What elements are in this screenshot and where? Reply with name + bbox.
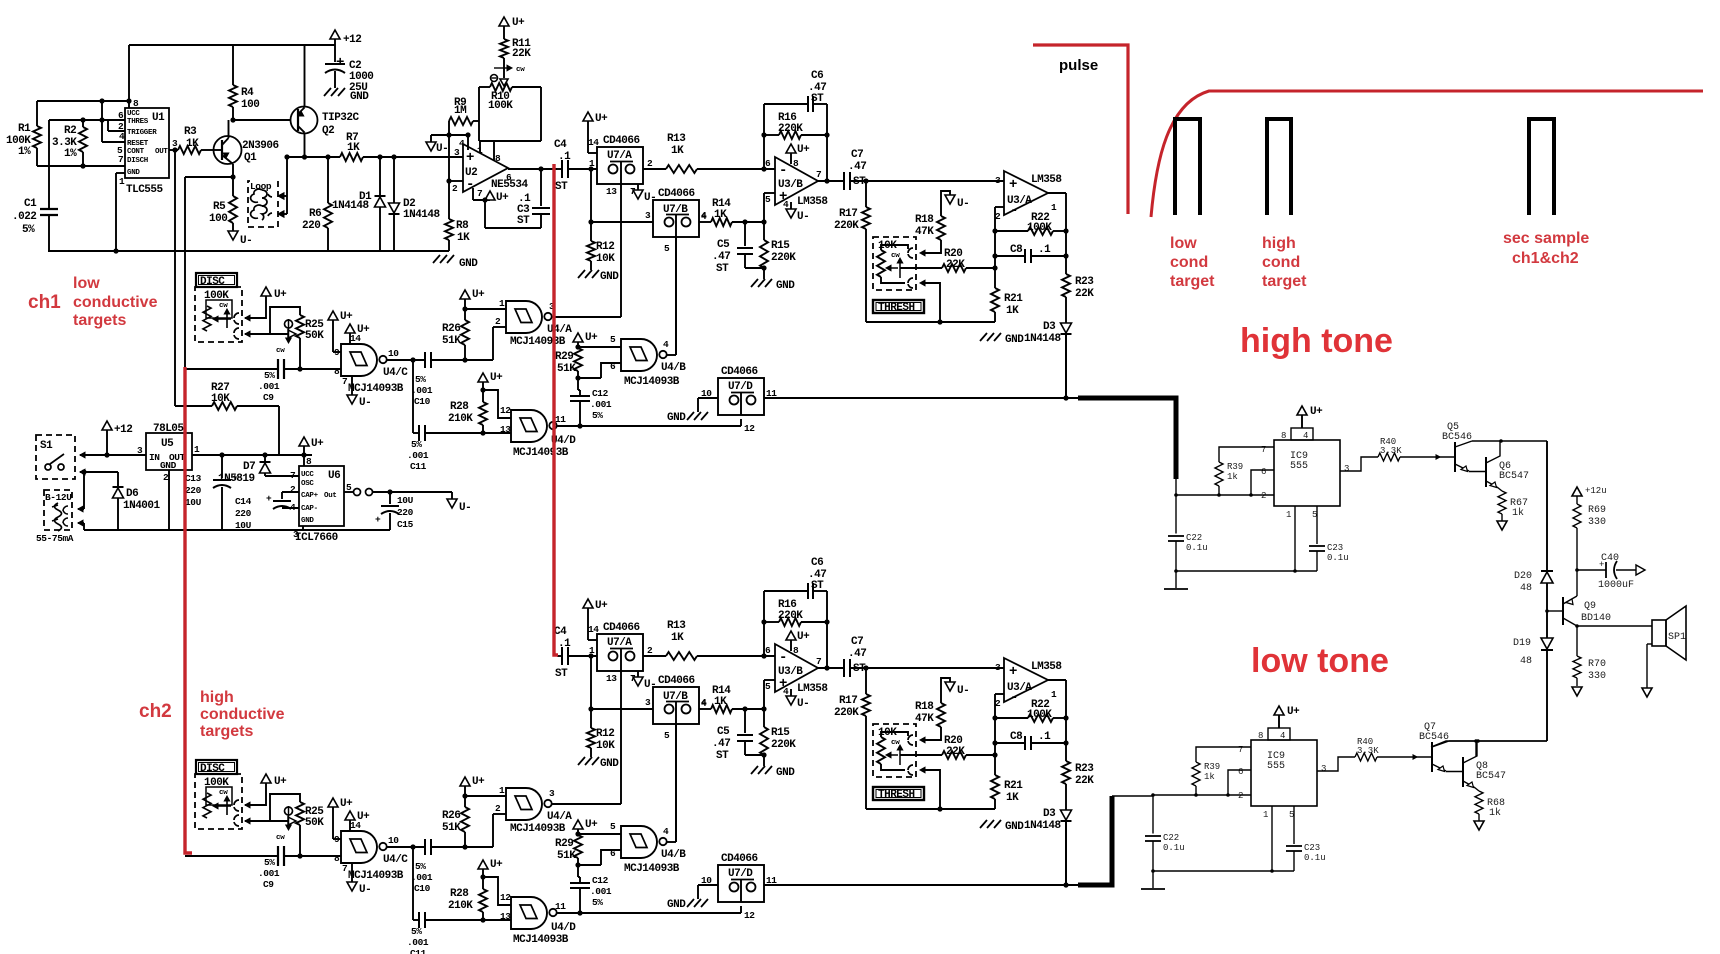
resistor R5 [232, 177, 234, 196]
svg-text:D20: D20 [1514, 571, 1532, 582]
analog switch U7/D CD4066 [718, 378, 764, 415]
resistor R26 51K [464, 345, 466, 360]
nand gate U4/C MCJ14093B [341, 344, 377, 376]
analog switch U7/B CD4066 [653, 687, 699, 724]
svg-text:1%: 1% [64, 148, 77, 160]
svg-text:220: 220 [397, 507, 414, 518]
nand gate U4/B MCJ14093B [621, 339, 657, 371]
svg-text:6: 6 [610, 848, 616, 859]
wire S1 lower to D6 [80, 469, 85, 475]
svg-text:U7/D: U7/D [728, 381, 753, 393]
resistor R70 330 [1576, 626, 1578, 656]
wire THRESH bottom terminal [922, 770, 940, 809]
svg-text:U-: U- [797, 698, 809, 710]
svg-text:low tone: low tone [1251, 642, 1389, 680]
svg-text:conductive: conductive [73, 294, 158, 311]
svg-text:C11: C11 [410, 461, 427, 472]
wire R25 to gate input [299, 338, 301, 369]
svg-text:R18: R18 [915, 214, 934, 226]
ground bar [1175, 571, 1177, 588]
svg-text:sec sample: sec sample [1503, 230, 1589, 247]
svg-text:1: 1 [1051, 689, 1057, 700]
svg-text:+: + [336, 55, 344, 71]
svg-text:C5: C5 [717, 726, 730, 738]
wire ch1 thick output to high tone 555 [1078, 398, 1176, 479]
wire THRESH wiper to R20 [900, 754, 942, 756]
svg-text:48: 48 [1520, 583, 1532, 594]
svg-text:5: 5 [610, 821, 616, 832]
capacitor C23 0.1u [1293, 806, 1295, 844]
svg-text:.001: .001 [407, 937, 429, 948]
pulse waveform low cond target [1175, 119, 1200, 215]
analog switch U7/D CD4066 [718, 865, 764, 902]
svg-text:7: 7 [816, 169, 822, 180]
wire bus to low tone block [1546, 650, 1548, 741]
svg-text:R12: R12 [596, 241, 614, 253]
wire U4/A output to U7/A control [551, 316, 621, 318]
minus circle [491, 75, 498, 82]
potentiometer DISC 100K [195, 287, 242, 342]
svg-text:48: 48 [1520, 656, 1532, 667]
svg-text:3: 3 [172, 138, 178, 149]
svg-text:R18: R18 [915, 701, 934, 713]
svg-text:5: 5 [765, 194, 771, 205]
svg-text:targets: targets [200, 723, 253, 740]
svg-text:GND: GND [667, 412, 686, 424]
svg-text:MCJ14093B: MCJ14093B [513, 447, 569, 459]
wire 555 pin1 ground rail [1294, 506, 1296, 571]
wire U3/A pin2 [995, 693, 1004, 695]
svg-text:U+: U+ [340, 798, 353, 810]
wire collector node [1449, 740, 1547, 742]
V+ arrows at U4/C [328, 311, 338, 320]
svg-text:51K: 51K [442, 335, 461, 347]
V- arrow at C15 [451, 492, 453, 500]
svg-text:U+: U+ [1287, 706, 1300, 718]
wire DISC lower to R25 wiper [245, 818, 250, 824]
svg-text:1N4148: 1N4148 [1024, 820, 1062, 832]
ground arrow below R67 [1474, 821, 1484, 830]
svg-text:5%: 5% [264, 857, 275, 868]
svg-text:330: 330 [1588, 671, 1606, 682]
resistor R23 22K [1062, 761, 1070, 784]
svg-text:U3/A: U3/A [1007, 195, 1032, 207]
svg-text:5%: 5% [415, 861, 426, 872]
svg-text:.001: .001 [590, 399, 612, 410]
svg-text:U4/B: U4/B [661, 362, 686, 374]
svg-text:14: 14 [588, 624, 599, 635]
svg-text:LM358: LM358 [797, 683, 828, 695]
potentiometer R10 100K [479, 86, 490, 88]
red ch2 trace line [554, 164, 558, 655]
svg-text:ST: ST [811, 93, 824, 105]
V- at U3/B pin4 [790, 689, 792, 697]
resistor R14 [711, 705, 732, 713]
V+ above 555 [1274, 706, 1284, 715]
svg-text:6: 6 [765, 158, 771, 169]
svg-text:C1: C1 [24, 198, 37, 210]
svg-text:2: 2 [647, 645, 653, 656]
svg-text:5%: 5% [264, 370, 275, 381]
svg-text:CD4066: CD4066 [721, 366, 758, 378]
svg-text:12: 12 [744, 910, 755, 921]
diode D20 48 [1541, 570, 1553, 572]
svg-text:CAP+: CAP+ [301, 492, 319, 500]
wire U3/A output [1048, 679, 1066, 681]
svg-text:1N4148: 1N4148 [403, 209, 441, 221]
svg-text:1N5819: 1N5819 [218, 473, 255, 485]
svg-text:ST: ST [716, 750, 729, 762]
svg-text:100K: 100K [488, 100, 513, 112]
resistor R39 1k [1215, 462, 1223, 486]
opamp U3/A LM358 [1004, 658, 1048, 702]
svg-text:5: 5 [610, 334, 616, 345]
wire C10 to U4/A pin2 [492, 814, 494, 847]
resistor R18 47K [937, 703, 945, 727]
svg-text:6: 6 [610, 361, 616, 372]
svg-text:11: 11 [555, 414, 566, 425]
svg-text:220: 220 [185, 485, 202, 496]
svg-text:1M: 1M [454, 105, 467, 117]
svg-text:5%: 5% [411, 439, 422, 450]
svg-text:MCJ14093B: MCJ14093B [348, 870, 404, 882]
svg-text:10K: 10K [211, 393, 230, 405]
wire ch2 thick output to low tone 555 [1078, 796, 1112, 885]
svg-text:R28: R28 [450, 401, 469, 413]
capacitor C7 [843, 172, 845, 190]
svg-text:cw: cw [276, 347, 285, 355]
svg-text:47K: 47K [915, 226, 934, 238]
svg-text:R6: R6 [309, 208, 321, 220]
svg-text:TRIGGER: TRIGGER [127, 129, 157, 137]
capacitor C10 [424, 352, 426, 368]
ground rail bottom [48, 250, 449, 252]
svg-text:U7/D: U7/D [728, 868, 753, 880]
svg-text:U6: U6 [328, 470, 340, 482]
svg-text:R4: R4 [241, 87, 254, 99]
svg-text:22K: 22K [1075, 775, 1094, 787]
svg-text:220K: 220K [778, 123, 803, 135]
svg-text:C23: C23 [1304, 843, 1320, 853]
svg-text:ST: ST [517, 215, 530, 227]
svg-text:6: 6 [506, 172, 512, 183]
svg-text:1K: 1K [671, 145, 684, 157]
svg-text:C6: C6 [811, 557, 823, 569]
wire 555 pin1 ground rail [1271, 806, 1273, 871]
svg-text:3: 3 [645, 697, 651, 708]
switch S1 [36, 435, 75, 479]
svg-text:high tone: high tone [1240, 322, 1393, 360]
diode D3 1N4148 [1061, 810, 1072, 820]
wire R18 to THRESH top terminal [922, 240, 941, 253]
svg-text:U4/B: U4/B [661, 849, 686, 861]
capacitor C1 [48, 120, 50, 208]
wire Q1 emitter to ch1 red node [232, 164, 234, 177]
ground below R12 [578, 270, 585, 278]
svg-text:78L05: 78L05 [153, 423, 184, 435]
wire R7 to U2 +input [363, 156, 463, 158]
svg-text:10: 10 [388, 835, 399, 846]
wire U3/B feedback right [826, 591, 828, 668]
svg-text:.47: .47 [712, 738, 730, 750]
svg-text:C14: C14 [235, 496, 252, 507]
svg-text:C7: C7 [851, 636, 863, 648]
power rail +12 wire [129, 44, 335, 46]
svg-text:R23: R23 [1075, 763, 1094, 775]
transistor Q1 2N3906 [214, 136, 242, 164]
V+ at U7/A pin14 [583, 112, 593, 121]
resistor R26 51K [464, 832, 466, 847]
V+ above R11 [499, 17, 509, 26]
svg-text:5%: 5% [592, 897, 603, 908]
svg-text:ch1&ch2: ch1&ch2 [1512, 250, 1579, 267]
svg-text:conductive: conductive [200, 706, 285, 723]
transistor Q BC546 [1454, 442, 1456, 472]
svg-text:CD4066: CD4066 [658, 675, 695, 687]
wire U1 pin1 ground [116, 172, 125, 174]
wire U7/B input [591, 221, 653, 223]
svg-text:CD4066: CD4066 [603, 622, 640, 634]
wire U7/B control pin5 [675, 215, 677, 356]
svg-text:UCC: UCC [301, 471, 314, 479]
resistor R23 22K [1062, 274, 1070, 297]
wire C11 branch [412, 360, 414, 433]
nand gate U4/D MCJ14093B [511, 410, 547, 442]
V- below U4/C [351, 376, 353, 396]
resistor R22 100K feedback [995, 230, 1028, 232]
wire 555 pin7 [1219, 447, 1274, 462]
svg-text:DISC: DISC [200, 763, 225, 775]
svg-text:GND: GND [127, 169, 140, 177]
svg-text:4: 4 [459, 138, 465, 149]
wire U2 pin8 stub [493, 141, 495, 161]
svg-text:8: 8 [306, 456, 312, 467]
IC U6 ICL7660 [299, 466, 344, 526]
svg-text:target: target [1262, 273, 1307, 290]
wire U7/D pin10 to ground [698, 397, 718, 399]
V+ above R26 [464, 298, 466, 320]
red decay curve [1151, 91, 1703, 217]
svg-text:.47: .47 [848, 648, 866, 660]
svg-text:C9: C9 [263, 879, 274, 890]
svg-text:1k: 1k [1204, 772, 1215, 782]
svg-text:R39: R39 [1204, 762, 1220, 772]
V- above R18 [945, 195, 955, 204]
svg-text:C4: C4 [554, 139, 567, 151]
analog switch U7/A CD4066 [597, 147, 643, 184]
wire U3/B pin5 R14 [764, 679, 775, 681]
svg-text:2N3906: 2N3906 [242, 140, 279, 152]
IC 555 timer IC9 [1274, 440, 1340, 506]
svg-text:1K: 1K [457, 232, 470, 244]
wire 555 pin6 pin2 [1228, 770, 1251, 795]
V- above R18 [945, 682, 955, 691]
svg-text:ch1: ch1 [28, 292, 61, 313]
wire R27 to rail [278, 406, 280, 455]
svg-text:12: 12 [500, 405, 511, 416]
svg-text:51K: 51K [557, 850, 576, 862]
capacitor C23 0.1u [1316, 506, 1318, 544]
svg-text:R70: R70 [1588, 659, 1606, 670]
svg-text:220K: 220K [771, 739, 796, 751]
svg-text:3: 3 [137, 445, 143, 456]
ground arrow below R70 [1572, 687, 1582, 696]
svg-text:C11: C11 [410, 948, 427, 954]
svg-text:7: 7 [290, 470, 296, 481]
svg-text:3.3K: 3.3K [1380, 446, 1402, 456]
svg-text:220K: 220K [771, 252, 796, 264]
capacitor C3 [508, 168, 557, 170]
svg-text:-: - [779, 650, 787, 666]
cw arrow at R11 [494, 67, 510, 69]
wire U4/B pin5 [578, 346, 621, 348]
svg-text:GND: GND [1005, 821, 1024, 833]
wire R28 to U4/D pin12 [483, 877, 511, 905]
ground symbol right [433, 255, 440, 263]
resistor R3 [172, 147, 177, 152]
svg-text:8: 8 [793, 158, 799, 169]
capacitor C40 1000uF [1577, 569, 1606, 571]
svg-text:D6: D6 [126, 488, 138, 500]
svg-text:ST: ST [811, 580, 824, 592]
svg-text:5%: 5% [411, 926, 422, 937]
resistor R6 [327, 157, 329, 203]
analog switch U7/A CD4066 [597, 634, 643, 671]
svg-text:R17: R17 [839, 695, 857, 707]
svg-text:4: 4 [1280, 731, 1285, 741]
diode D7 1N5819 [264, 455, 266, 462]
svg-text:ST: ST [716, 263, 729, 275]
svg-text:C8: C8 [1010, 731, 1023, 743]
svg-text:S1: S1 [40, 440, 53, 452]
V+ above 555 [1297, 406, 1307, 415]
svg-text:6: 6 [118, 110, 124, 121]
svg-text:4: 4 [1303, 431, 1308, 441]
svg-text:U+: U+ [340, 311, 353, 323]
resistor R1 [33, 126, 41, 148]
svg-text:13: 13 [606, 673, 617, 684]
wire Q9 emitter to R69 [1576, 570, 1578, 596]
svg-text:D3: D3 [1043, 321, 1056, 333]
regulator U5 78L05 [146, 433, 192, 470]
svg-text:3: 3 [549, 788, 555, 799]
svg-text:100K: 100K [1027, 222, 1052, 234]
svg-text:U-: U- [644, 679, 656, 691]
svg-text:U-: U- [459, 502, 471, 514]
wire U4/C output [386, 359, 425, 361]
svg-text:BD140: BD140 [1581, 613, 1611, 624]
diode D3 1N4148 [1061, 323, 1072, 333]
V- at U3/B pin4 [790, 202, 792, 210]
svg-text:C6: C6 [811, 70, 823, 82]
svg-text:55-75mA: 55-75mA [36, 533, 74, 544]
svg-text:4: 4 [663, 339, 669, 350]
svg-text:22K: 22K [1075, 288, 1094, 300]
svg-text:DISCH: DISCH [127, 157, 148, 165]
svg-text:5%: 5% [592, 410, 603, 421]
svg-text:4: 4 [119, 131, 125, 142]
svg-text:THRES: THRES [127, 118, 149, 126]
svg-text:8: 8 [1258, 731, 1263, 741]
svg-text:5: 5 [765, 681, 771, 692]
resistor R15 [760, 240, 768, 268]
pulse waveform sec sample [1529, 119, 1554, 215]
svg-text:R13: R13 [667, 620, 686, 632]
svg-text:1k: 1k [1227, 472, 1238, 482]
wire DISC lower to R25 wiper [245, 331, 250, 337]
wire U3/B feedback left [763, 104, 765, 169]
svg-text:47K: 47K [915, 713, 934, 725]
svg-text:50K: 50K [305, 817, 324, 829]
analog switch U7/B CD4066 [653, 200, 699, 237]
wire THRES line [49, 119, 125, 121]
svg-text:IN: IN [149, 452, 160, 463]
capacitor C22 0.1u [1175, 495, 1177, 534]
svg-text:8: 8 [1281, 431, 1286, 441]
transistor Q2 TIP32C [291, 107, 318, 134]
svg-text:4: 4 [663, 826, 669, 837]
resistor R40 3.3K [1355, 753, 1377, 761]
nand gate U4/B MCJ14093B [621, 826, 657, 858]
wire U5 output rail [192, 454, 312, 456]
svg-text:R12: R12 [596, 728, 614, 740]
svg-text:8: 8 [334, 366, 340, 377]
svg-text:ch2: ch2 [139, 701, 172, 722]
svg-text:13: 13 [500, 911, 511, 922]
ground below R15 [751, 766, 758, 774]
svg-text:.001: .001 [411, 872, 433, 883]
svg-text:U7/B: U7/B [663, 691, 688, 703]
svg-text:330: 330 [1588, 517, 1606, 528]
svg-text:BC546: BC546 [1442, 432, 1472, 443]
svg-text:BC547: BC547 [1476, 771, 1506, 782]
wire U3/B feedback right [826, 104, 828, 181]
V- below R5 [228, 231, 238, 240]
IC U1 TLC555 [125, 108, 169, 178]
svg-text:U7/A: U7/A [607, 637, 632, 649]
wire RESET line [102, 141, 125, 143]
svg-text:C8: C8 [1010, 244, 1023, 256]
svg-text:cw: cw [219, 789, 228, 797]
svg-text:GND: GND [600, 758, 619, 770]
IC 555 timer IC9 [1251, 740, 1317, 806]
speaker SP1 [1652, 620, 1666, 646]
svg-text:1K: 1K [1006, 305, 1019, 317]
capacitor C4 [557, 655, 562, 657]
svg-text:U-: U- [436, 143, 448, 155]
svg-text:D19: D19 [1513, 638, 1531, 649]
resistor R22 100K feedback [995, 717, 1028, 719]
resistor R7 [340, 153, 363, 161]
wire U4/C output [386, 846, 425, 848]
opamp U2 NE5534 [463, 144, 508, 192]
capacitor C5 [744, 709, 746, 733]
wire U7/A control pin13 [620, 649, 622, 805]
svg-text:R17: R17 [839, 208, 857, 220]
V- below U4/C [351, 863, 353, 883]
svg-text:LM358: LM358 [1031, 661, 1062, 673]
resistor R21 1K [994, 207, 996, 288]
svg-text:R28: R28 [450, 888, 469, 900]
svg-text:RESET: RESET [127, 140, 149, 148]
svg-text:C23: C23 [1327, 543, 1343, 553]
wire U4/A output to U7/A control [551, 803, 621, 805]
svg-text:cw: cw [891, 739, 900, 747]
svg-text:U1: U1 [152, 112, 165, 124]
svg-text:D7: D7 [243, 461, 255, 473]
svg-text:U4/C: U4/C [383, 854, 408, 866]
wire U3/A pin2 [995, 206, 1004, 208]
